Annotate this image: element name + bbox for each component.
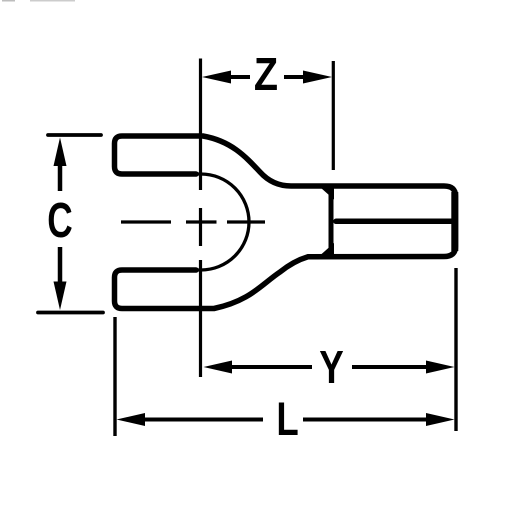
L dimension line right arrow (426, 413, 455, 426)
svg-text:Z: Z (254, 49, 278, 101)
C dimension bottom tick (38, 311, 103, 315)
svg-text:Y: Y (319, 341, 344, 393)
centerline dash left (121, 220, 171, 223)
barrel joint wedge top (317, 184, 335, 200)
extension line right (Y and L) (454, 268, 457, 431)
vertical extension line upper (Z left) (199, 59, 202, 191)
svg-text:C: C (47, 193, 72, 248)
scan smudge top-left (2, 0, 15, 2)
barrel right edge reinforcement (451, 192, 458, 251)
Z dimension line right arrow (303, 71, 332, 84)
centerline dash right (227, 220, 265, 223)
vertical center dash (199, 208, 202, 246)
barrel joint wedge bottom (317, 243, 335, 259)
Z dimension line left arrow (202, 71, 231, 84)
extension line Z right (332, 61, 335, 170)
Y dimension line left arrow (204, 361, 233, 374)
fork slot inner edges and arc (194, 174, 249, 270)
C dimension top tick (48, 133, 101, 137)
svg-text:L: L (276, 392, 298, 445)
fork terminal outer contour (115, 136, 456, 309)
extension line L left (113, 317, 116, 436)
C up arrow (54, 138, 67, 167)
vertical extension line lower (Y left) (199, 260, 202, 377)
centerline cross dash (186, 220, 217, 223)
C down arrow (54, 282, 67, 311)
barrel left end line (329, 186, 334, 257)
Y dimension line right arrow (426, 361, 455, 374)
L dimension line left arrow (117, 413, 146, 426)
barrel seam line (336, 219, 453, 225)
